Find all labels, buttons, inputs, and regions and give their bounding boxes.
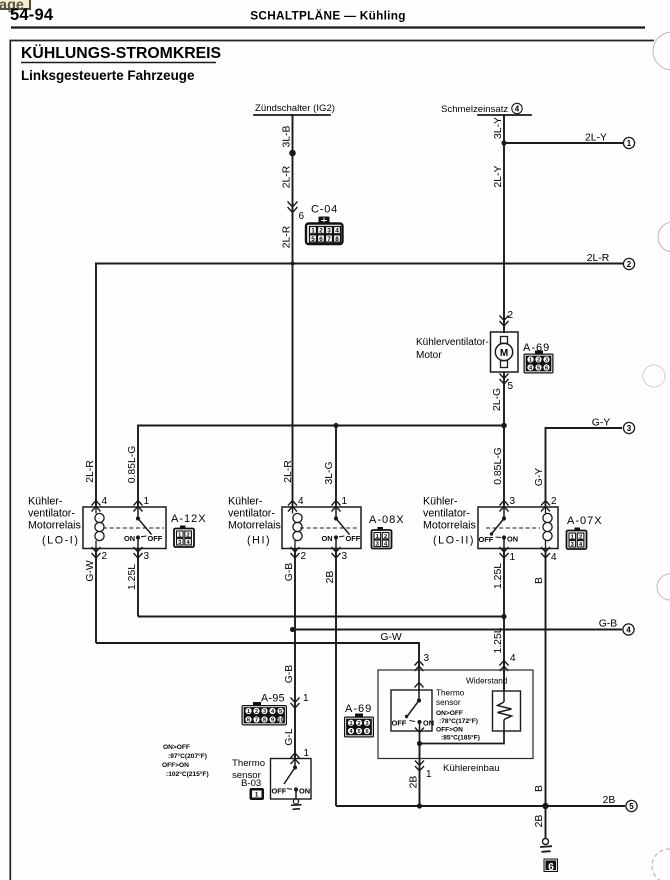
wire relay2 pin1 drop: [335, 426, 337, 508]
ground id box 6: [544, 859, 559, 874]
svg-text:2: 2: [255, 709, 258, 715]
svg-text:5: 5: [279, 709, 282, 715]
svg-text:6: 6: [548, 861, 554, 873]
svg-text:6: 6: [365, 729, 368, 735]
svg-text:Kühler-: Kühler-: [228, 496, 263, 508]
box Kuehlereinbau: [378, 670, 533, 759]
svg-text:3: 3: [263, 709, 266, 715]
svg-text:2: 2: [186, 532, 189, 538]
pin marker B-03 pin 1: [291, 753, 300, 764]
svg-text:54-94: 54-94: [10, 6, 54, 24]
marker pin 1 below box: [415, 761, 424, 772]
svg-text:3: 3: [627, 424, 632, 433]
svg-text:5: 5: [311, 236, 315, 243]
svg-text:6: 6: [299, 211, 305, 222]
page tab circles right edge: [643, 32, 670, 880]
label relay1 text: [28, 496, 81, 547]
svg-text:4: 4: [510, 653, 516, 664]
pin 3 arrows: [332, 547, 341, 558]
svg-text:6: 6: [247, 718, 250, 724]
wire pin3 down 2B to bottom bus: [335, 549, 337, 807]
svg-text:1: 1: [311, 228, 315, 235]
svg-text:G-B: G-B: [284, 665, 295, 684]
svg-text:2B: 2B: [603, 795, 616, 806]
node splice dot: [289, 150, 296, 157]
svg-text:2B: 2B: [409, 776, 420, 789]
node terminal 3: [623, 422, 634, 433]
svg-text:ON: ON: [299, 787, 310, 796]
svg-text:2: 2: [579, 534, 582, 540]
switch sensor 2: [392, 690, 435, 731]
node junction sensor2/resistor: [417, 741, 422, 746]
node junction dot fuse/2L-Y: [501, 140, 506, 145]
svg-text:(LO-II): (LO-II): [433, 535, 475, 547]
svg-text:4: 4: [298, 496, 304, 507]
svg-text:M: M: [500, 348, 508, 359]
connector A-07X: [567, 515, 603, 549]
svg-text:ON: ON: [322, 534, 333, 543]
svg-text:A-07X: A-07X: [567, 515, 603, 527]
svg-text:(HI): (HI): [247, 535, 271, 547]
svg-text:0.85L-G: 0.85L-G: [493, 447, 504, 485]
svg-text:3: 3: [510, 496, 516, 507]
connector A-69: [523, 342, 554, 374]
wire 2B bus to terminal 5: [336, 805, 625, 807]
svg-text:1.25L: 1.25L: [127, 564, 138, 590]
pin 3 arrows: [134, 547, 143, 558]
svg-text:B: B: [534, 577, 545, 584]
svg-text:7: 7: [255, 718, 258, 724]
coil: [95, 507, 104, 549]
svg-text:4: 4: [335, 228, 339, 235]
svg-text:0.85L-G: 0.85L-G: [127, 446, 138, 484]
svg-text:1: 1: [529, 358, 532, 364]
svg-text:1: 1: [144, 496, 150, 507]
svg-text:G-B: G-B: [599, 619, 618, 630]
connector icon B-03: [250, 788, 265, 800]
node junction ignition/2L-R bus: [290, 261, 294, 265]
svg-text:2: 2: [627, 260, 632, 269]
svg-text:1: 1: [304, 748, 310, 759]
svg-text::78°C(172°F): :78°C(172°F): [439, 717, 478, 725]
marker below sensor2: [415, 728, 424, 733]
svg-text:4: 4: [102, 496, 108, 507]
svg-text:Widerstand: Widerstand: [466, 677, 508, 686]
wire to ground: [545, 806, 547, 839]
svg-text:4: 4: [626, 626, 631, 635]
svg-text:Thermo: Thermo: [436, 689, 465, 698]
svg-text:ON: ON: [124, 534, 135, 543]
svg-text:2: 2: [508, 310, 514, 321]
resistor R zigzag: [498, 691, 512, 731]
svg-text:2L-R: 2L-R: [283, 460, 294, 483]
pin 1 arrows: [500, 547, 509, 558]
relay K3 box: [478, 507, 558, 549]
node junction G-B: [290, 627, 295, 632]
svg-text:Kühler-: Kühler-: [28, 496, 63, 508]
svg-text:G-Y: G-Y: [534, 468, 545, 487]
svg-text:2: 2: [384, 534, 387, 540]
svg-text:sensor: sensor: [436, 698, 461, 707]
wire pin2 down: [95, 549, 97, 644]
svg-text:2L-R: 2L-R: [85, 460, 96, 483]
svg-text:3: 3: [144, 551, 150, 562]
wire motor to bus: [503, 372, 505, 426]
svg-text:ON>OFF: ON>OFF: [163, 744, 190, 751]
wire G-B bus to terminal 4: [293, 629, 623, 631]
wire junction down exits box: [419, 744, 421, 807]
wire fuse vertical 3L-Y/2L-Y then down to motor (x=504): [503, 115, 505, 332]
node terminal 5: [626, 800, 637, 811]
svg-text:10: 10: [277, 718, 283, 724]
wire pin4 down B: [545, 549, 547, 807]
switch: [124, 507, 163, 549]
svg-text:B: B: [534, 785, 545, 792]
connector A-08X: [369, 514, 405, 549]
svg-text:A-69: A-69: [345, 703, 372, 715]
pin 1 arrows: [134, 501, 143, 512]
svg-text:(LO-I): (LO-I): [42, 535, 80, 547]
svg-text:Kühlerventilator-: Kühlerventilator-: [416, 337, 489, 348]
svg-text:ON: ON: [507, 535, 518, 544]
wire G-Y to terminal 3: [546, 428, 623, 508]
node junction B/2B: [542, 803, 548, 809]
label relay2 text: [228, 496, 281, 547]
wire 1.25L into box: [503, 617, 505, 692]
dashed link: [300, 527, 359, 529]
node junction motor bus: [501, 423, 507, 429]
svg-text:2L-Y: 2L-Y: [493, 165, 504, 187]
svg-text:Linksgesteuerte Fahrzeuge: Linksgesteuerte Fahrzeuge: [21, 68, 194, 83]
svg-text:G-Y: G-Y: [592, 418, 611, 429]
svg-text::97°C(207°F): :97°C(207°F): [168, 752, 207, 760]
svg-text:2L-G: 2L-G: [492, 388, 503, 411]
svg-text:Schmelzeinsatz: Schmelzeinsatz: [441, 104, 508, 115]
label relay3 text: [423, 496, 476, 547]
svg-text:2L-R: 2L-R: [282, 225, 293, 248]
wire bus to relay pins 1 (y=425.5): [138, 426, 504, 508]
svg-text:3L-B: 3L-B: [282, 125, 293, 147]
pin 2 arrows: [92, 547, 101, 558]
svg-text:OFF: OFF: [392, 719, 407, 728]
switch mirrored: [479, 507, 519, 549]
svg-text:A-08X: A-08X: [369, 514, 405, 526]
svg-text:1.25L: 1.25L: [493, 563, 504, 589]
wire G-W bus: [96, 643, 419, 670]
pin 3 arrows: [500, 501, 509, 512]
ground B-03: [291, 799, 302, 809]
node terminal 1: [623, 137, 634, 148]
svg-text:2: 2: [102, 551, 108, 562]
svg-text:2: 2: [319, 228, 323, 235]
svg-text:ON>OFF: ON>OFF: [436, 710, 463, 717]
wire pin1 down 1.25L: [503, 549, 505, 617]
svg-text:2L-R: 2L-R: [587, 253, 610, 264]
svg-text:Zündschalter (IG2): Zündschalter (IG2): [255, 103, 335, 114]
svg-text:3: 3: [342, 551, 348, 562]
svg-text:Motorrelais: Motorrelais: [423, 520, 476, 532]
node Schmelzeinsatz (4): [441, 103, 531, 115]
svg-text:Motorrelais: Motorrelais: [228, 520, 281, 532]
svg-text:3: 3: [545, 358, 548, 364]
svg-text:Motor: Motor: [416, 350, 442, 361]
thermo sensor B-03 box: [271, 759, 312, 800]
header rule: [11, 26, 645, 28]
svg-text:OFF: OFF: [346, 534, 361, 543]
label temperature thresholds B-03: [162, 744, 209, 778]
svg-text:G-W: G-W: [85, 560, 96, 582]
node terminal 4: [623, 624, 634, 635]
wire 1.25L bus: [138, 616, 504, 618]
svg-text:2L-R: 2L-R: [282, 165, 293, 188]
svg-text:8: 8: [263, 718, 266, 724]
svg-text:7: 7: [327, 236, 331, 243]
svg-text:Motorrelais: Motorrelais: [28, 520, 81, 532]
wire 2L-Y to terminal 1: [504, 142, 623, 144]
wire ignition vertical 3L-B/2L-R (x=292.5): [292, 115, 294, 507]
svg-text:2: 2: [537, 358, 540, 364]
svg-text:SCHALTPLÄNE — Kühling: SCHALTPLÄNE — Kühling: [250, 9, 406, 23]
pin 4 arrows: [288, 501, 297, 512]
svg-text:ventilator-: ventilator-: [28, 508, 75, 520]
svg-text:6: 6: [319, 236, 323, 243]
svg-text:3L-G: 3L-G: [324, 461, 335, 484]
wire relay1 pin4 feed (x=96 down from 2L-R bus): [95, 264, 97, 508]
svg-text:Kühler-: Kühler-: [423, 496, 458, 508]
wire pin3 down: [137, 549, 139, 617]
svg-text:4: 4: [551, 552, 557, 563]
svg-text:B-03: B-03: [241, 778, 261, 789]
svg-text:2: 2: [357, 721, 360, 727]
svg-text:9: 9: [271, 718, 274, 724]
pin 2 arrows: [291, 547, 300, 558]
pin 2 arrows: [541, 501, 550, 512]
svg-text::85°C(185°F): :85°C(185°F): [441, 734, 480, 742]
svg-text:8: 8: [335, 236, 339, 243]
wire motor bus down to relay3 pin3: [503, 426, 505, 509]
connector A-95: [242, 693, 288, 726]
svg-text:Kühlereinbau: Kühlereinbau: [443, 763, 500, 774]
svg-text:A-95: A-95: [261, 693, 285, 705]
connector A-12X: [171, 513, 207, 547]
switch: [322, 507, 361, 549]
svg-text:ventilator-: ventilator-: [228, 508, 275, 520]
svg-text:2L-Y: 2L-Y: [585, 133, 607, 144]
svg-text:5: 5: [629, 802, 634, 811]
svg-text:ventilator-: ventilator-: [423, 508, 470, 520]
svg-text:A-12X: A-12X: [171, 513, 207, 525]
svg-text:1: 1: [627, 139, 632, 148]
node junction 1.25L: [501, 614, 506, 619]
svg-text:3: 3: [424, 653, 430, 664]
marker inner: [415, 683, 424, 688]
coil right side: [543, 507, 552, 549]
label temperature thresholds sensor2: [436, 710, 480, 742]
node junction relay2 pin1: [333, 423, 338, 428]
pin 4 arrows: [92, 501, 101, 512]
wire G-B/G-L down to sensor: [294, 630, 296, 759]
svg-text:2: 2: [301, 551, 307, 562]
svg-text:1.25L: 1.25L: [493, 627, 504, 653]
svg-text:1: 1: [349, 721, 352, 727]
svg-text::102°C(215°F): :102°C(215°F): [166, 770, 209, 778]
dashed link: [103, 527, 164, 529]
svg-text:1: 1: [342, 496, 348, 507]
svg-text:OFF: OFF: [148, 534, 163, 543]
ground symbol: [540, 839, 552, 852]
label Thermo sensor B-03: [232, 758, 265, 789]
wire sensor2 to junction: [419, 731, 421, 744]
svg-text:5: 5: [508, 381, 514, 392]
svg-text:1: 1: [510, 552, 516, 563]
svg-text:3L-Y: 3L-Y: [493, 117, 504, 139]
wire pin2 down G-B: [294, 549, 296, 630]
wire resistor bottom to junction: [420, 731, 505, 744]
svg-text:1: 1: [303, 693, 309, 704]
coil: [293, 507, 303, 549]
tooltip box top-left: [0, 0, 30, 14]
svg-text:2: 2: [551, 496, 557, 507]
thermo sensor 2 box: [391, 690, 432, 731]
relay K2 box: [282, 507, 361, 549]
switch B-03: [272, 759, 311, 800]
pin 1 arrows: [332, 501, 341, 512]
connector A-69 second: [344, 703, 374, 738]
svg-text:C-04: C-04: [311, 204, 338, 216]
svg-text:6: 6: [545, 366, 548, 372]
svg-text:ON: ON: [423, 719, 434, 728]
dashed link: [486, 527, 540, 529]
marker pin 3: [415, 661, 424, 672]
svg-text:2B: 2B: [325, 571, 336, 584]
connector marker pin 1 (A-95): [291, 698, 300, 709]
resistor box: [493, 691, 521, 731]
svg-text:3: 3: [327, 228, 331, 235]
svg-text:2B: 2B: [534, 815, 545, 828]
svg-text:5: 5: [537, 366, 540, 372]
svg-text:4: 4: [515, 105, 520, 114]
connector marker pin 2: [500, 316, 509, 327]
svg-text:OFF: OFF: [479, 535, 494, 544]
svg-text:OFF: OFF: [272, 787, 287, 796]
connector C-04: [306, 204, 343, 245]
svg-text:Thermo: Thermo: [232, 758, 265, 769]
marker pin 4: [500, 661, 509, 672]
svg-text:1: 1: [426, 769, 432, 780]
node junction thermo 2B: [417, 803, 422, 808]
svg-text:G-W: G-W: [380, 632, 402, 643]
connector marker pin 6 (to C-04): [288, 202, 297, 213]
connector marker pin 5: [500, 374, 509, 385]
svg-text:G-B: G-B: [284, 563, 295, 582]
node Zuendschalter (IG2): [254, 103, 335, 115]
node terminal 2: [623, 258, 634, 269]
wire into inner sensor: [418, 670, 420, 690]
svg-text:G-L: G-L: [284, 728, 295, 746]
relay K1 box: [83, 507, 166, 549]
svg-text:OFF>ON: OFF>ON: [162, 762, 189, 769]
svg-text:3: 3: [365, 721, 368, 727]
label Thermo sensor 2: [436, 689, 465, 708]
wire 2L-R bus to terminal 2: [96, 263, 622, 265]
svg-text:1: 1: [247, 709, 250, 715]
svg-text:5: 5: [357, 729, 360, 735]
pin 4 arrows: [541, 547, 550, 558]
motor M symbol Kuehlerventilator-Motor: [491, 332, 519, 372]
svg-text:KÜHLUNGS-STROMKREIS: KÜHLUNGS-STROMKREIS: [21, 43, 221, 62]
svg-text:OFF>ON: OFF>ON: [436, 727, 463, 734]
